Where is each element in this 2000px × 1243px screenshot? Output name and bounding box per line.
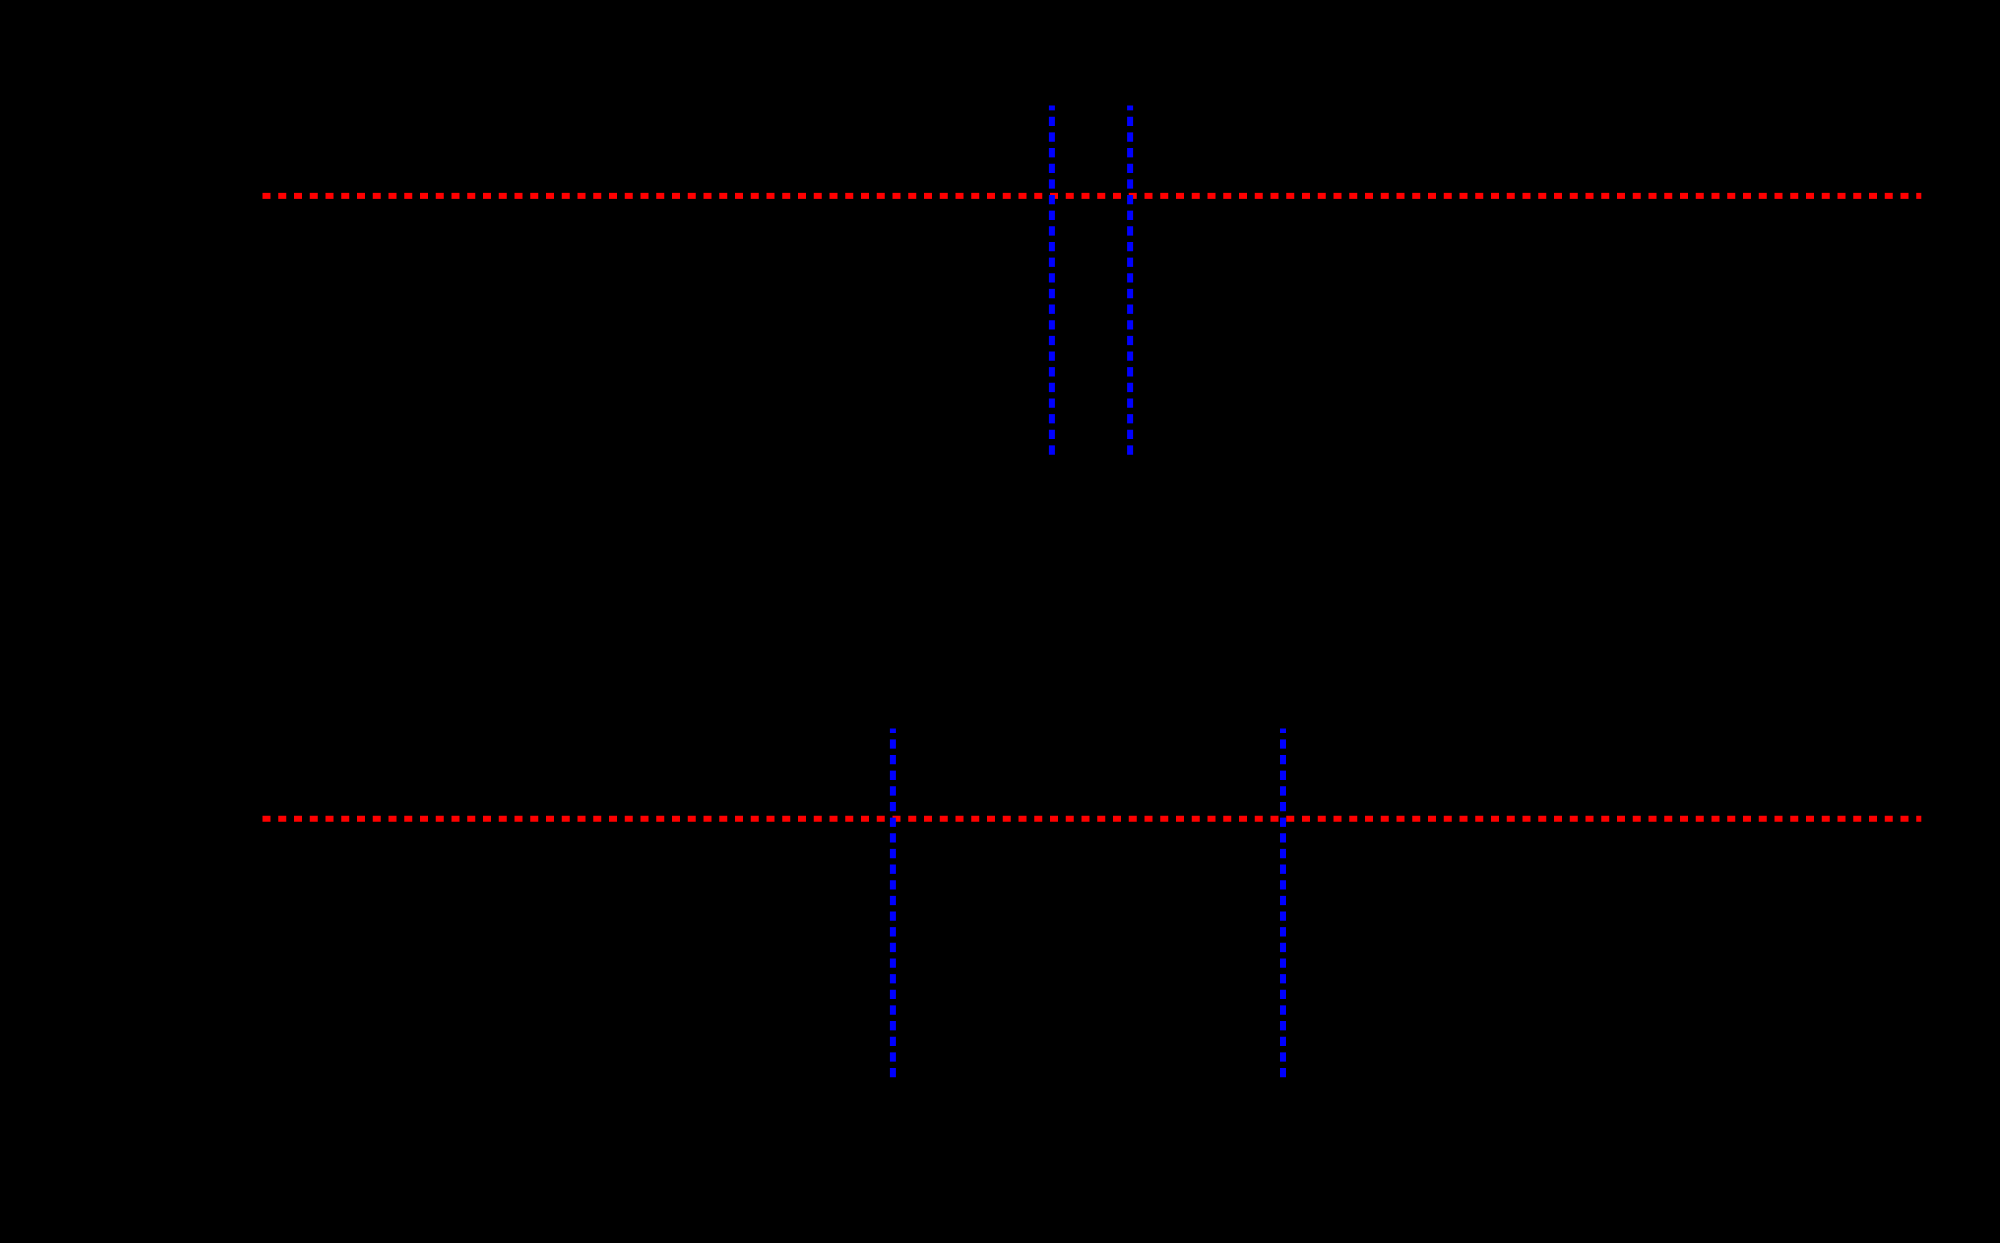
blue dashed vertical marker line 2 (top subplot, right)	[1127, 106, 1133, 455]
blue dashed vertical marker line 1 (top subplot, left)	[1049, 106, 1055, 455]
red dashed horizontal threshold line (bottom subplot)	[263, 816, 1922, 822]
blue dashed vertical marker line 2 (bottom subplot, right)	[1280, 729, 1286, 1078]
red dashed horizontal threshold line (top subplot)	[263, 193, 1922, 199]
blue dashed vertical marker line 1 (bottom subplot, left)	[890, 729, 896, 1078]
